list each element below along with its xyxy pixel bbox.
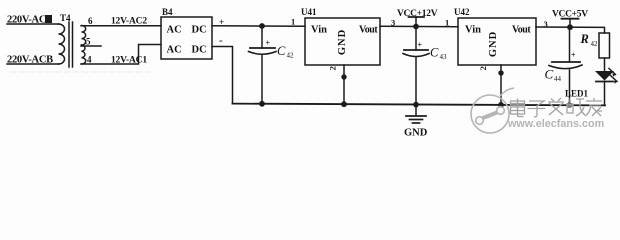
svg-text:GND: GND xyxy=(404,128,428,139)
svg-text:AC: AC xyxy=(167,45,182,56)
label U42 xyxy=(454,7,470,17)
net label VCC+5V xyxy=(552,10,588,20)
pin 3 label U42 xyxy=(544,19,548,29)
power flag VCC+12V xyxy=(409,17,425,27)
svg-text:VCC+12V: VCC+12V xyxy=(397,9,438,19)
pin 5 label xyxy=(86,37,91,47)
value label C44 xyxy=(545,67,562,84)
svg-text:43: 43 xyxy=(440,53,448,61)
label GND U42 (rotated) xyxy=(488,31,499,57)
transformer T4 xyxy=(59,22,86,67)
net label 12V-AC1 xyxy=(111,56,147,66)
label Vin U41 xyxy=(311,25,327,36)
svg-text:R: R xyxy=(580,32,589,46)
svg-text:C: C xyxy=(277,44,286,58)
svg-text:+: + xyxy=(571,51,576,60)
wire B4 + output to U41 Vin xyxy=(212,25,305,27)
net label 220V-ACB xyxy=(7,55,53,66)
svg-text:-: - xyxy=(219,35,223,47)
svg-text:1: 1 xyxy=(445,18,449,28)
capacitor C44 xyxy=(549,27,582,105)
label GND U41 (rotated) xyxy=(337,29,348,55)
label + of C44 xyxy=(571,51,576,60)
wire U41 pin2 to ground rail xyxy=(343,65,345,104)
net label VCC+12V xyxy=(397,9,438,19)
svg-text:VCC+5V: VCC+5V xyxy=(552,10,588,20)
label Vout U42 xyxy=(512,25,531,36)
net label 12V-AC2 xyxy=(111,17,147,27)
svg-text:LED1: LED1 xyxy=(565,89,589,99)
wire 220V-AC2 to T4 primary top xyxy=(7,23,59,25)
junction on U41 pin2 wire xyxy=(341,74,346,79)
label + (B4 positive output) xyxy=(219,17,224,27)
junction C44 at rail xyxy=(567,102,573,108)
pin 6 label xyxy=(88,16,93,26)
pin 4 label xyxy=(87,55,92,65)
label B4 xyxy=(162,7,173,17)
pin 3 label U41 xyxy=(391,18,395,28)
watermark url www.elecfans.com xyxy=(507,118,604,130)
wire T4 pin4 to B4 (net 12V-AC1) xyxy=(81,45,161,65)
pin 2 label U42 (rotated) xyxy=(478,66,488,70)
wire T4 pin6 to B4 (net 12V-AC2) xyxy=(81,25,161,27)
pin 1 label U42 xyxy=(445,18,449,28)
svg-text:1: 1 xyxy=(291,17,295,27)
junction VCC+5V node xyxy=(567,24,573,30)
svg-text:Vout: Vout xyxy=(512,25,531,36)
wire U42 Vout to R42 xyxy=(536,27,605,33)
label DC (top row) xyxy=(192,25,207,36)
junction VCC+12V node xyxy=(413,24,419,30)
pin 2 label U41 (rotated) xyxy=(328,66,338,70)
ground symbol xyxy=(406,105,426,123)
power flag VCC+5V xyxy=(562,19,579,28)
scan ghost artifact line xyxy=(10,71,150,73)
wire ground rail xyxy=(233,104,606,106)
svg-text:GND: GND xyxy=(488,31,499,57)
svg-text:DC: DC xyxy=(192,25,207,36)
watermark text 电子发烧友 (fake glyph strokes) xyxy=(511,98,603,117)
svg-text:44: 44 xyxy=(554,75,562,83)
svg-text:B4: B4 xyxy=(162,7,173,17)
svg-text:4: 4 xyxy=(87,55,92,65)
value label R42 xyxy=(580,32,599,48)
svg-text:42: 42 xyxy=(287,52,295,60)
wire U41 Vout to U42 Vin xyxy=(380,25,458,27)
capacitor C42 xyxy=(249,26,277,104)
wire LED1 to ground rail xyxy=(604,82,606,106)
value label C42 xyxy=(277,44,294,60)
label GND xyxy=(404,128,428,139)
label AC (top row) xyxy=(167,25,182,36)
label U41 xyxy=(301,7,317,17)
wire R42 to LED1 xyxy=(604,58,606,71)
wire 220V-ACB to T4 primary bottom xyxy=(7,63,59,65)
regulator U41 xyxy=(305,18,380,65)
wire B4 - output down to ground rail xyxy=(212,47,233,104)
svg-text:C: C xyxy=(545,67,554,82)
junction U41 pin2 at rail xyxy=(341,101,347,107)
svg-text:C: C xyxy=(430,46,439,60)
resistor R42 xyxy=(599,33,610,58)
label Vout U41 xyxy=(359,25,378,36)
svg-text:2: 2 xyxy=(478,66,488,70)
label Vin U42 xyxy=(465,25,481,36)
value label C43 xyxy=(430,46,447,62)
rectifier B4 xyxy=(161,17,212,59)
label - (B4 negative output) xyxy=(219,35,223,47)
label T4 xyxy=(60,13,71,23)
svg-text:Vout: Vout xyxy=(359,25,378,36)
svg-text:Vin: Vin xyxy=(465,25,481,36)
svg-text:2: 2 xyxy=(328,66,338,70)
wire T4 pin5 stub xyxy=(81,45,101,47)
net label 220V-AC2 xyxy=(7,15,52,26)
svg-text:AC: AC xyxy=(167,25,182,36)
svg-text:T4: T4 xyxy=(60,13,71,23)
label + of C43 xyxy=(418,41,423,50)
svg-text:U41: U41 xyxy=(301,7,317,17)
watermark logo circle xyxy=(471,88,514,133)
svg-text:Vin: Vin xyxy=(311,25,327,36)
capacitor C43 xyxy=(403,27,429,105)
svg-text:DC: DC xyxy=(192,45,207,56)
svg-text:+: + xyxy=(266,39,271,48)
svg-text:12V-AC2: 12V-AC2 xyxy=(111,17,147,27)
svg-text:12V-AC1: 12V-AC1 xyxy=(111,56,147,66)
junction C42 bottom xyxy=(259,101,265,107)
svg-text:+: + xyxy=(418,41,423,50)
label AC (bottom row) xyxy=(167,45,182,56)
junction ground node xyxy=(413,102,419,108)
junction C42 top xyxy=(259,23,265,29)
svg-text:www.elecfans.com: www.elecfans.com xyxy=(507,118,604,130)
LED LED1 xyxy=(595,69,617,84)
pin 1 label U41 xyxy=(291,17,295,27)
junction U42 pin2 at rail xyxy=(498,102,504,108)
svg-text:5: 5 xyxy=(86,37,91,47)
junction on U42 pin2 wire xyxy=(498,70,503,75)
label DC (bottom row) xyxy=(192,45,207,56)
svg-text:GND: GND xyxy=(337,29,348,55)
regulator U42 xyxy=(458,18,536,65)
wire U42 pin2 to ground rail xyxy=(500,65,502,105)
svg-text:U42: U42 xyxy=(454,7,470,17)
label + of C42 xyxy=(266,39,271,48)
label LED1 xyxy=(565,89,589,99)
svg-text:6: 6 xyxy=(88,16,93,26)
svg-text:42: 42 xyxy=(591,40,599,48)
